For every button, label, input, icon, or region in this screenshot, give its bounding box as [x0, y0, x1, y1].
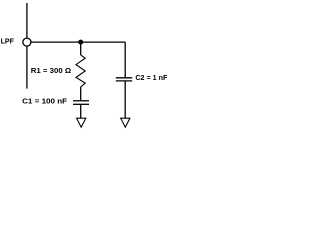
svg-text:R1 = 300 Ω: R1 = 300 Ω [31, 66, 71, 75]
svg-text:C2 = 1 nF: C2 = 1 nF [135, 73, 167, 82]
ground right [121, 118, 130, 127]
wire below LPF terminal [26, 46, 28, 88]
wire input top vertical [26, 3, 28, 38]
wire C1 to ground [80, 105, 82, 118]
wire horizontal main [31, 41, 125, 43]
ground left [77, 118, 86, 127]
wire R1 to C1 [80, 88, 82, 101]
node LPF terminal circle [23, 38, 31, 46]
svg-text:LPF: LPF [1, 36, 15, 45]
resistor R1 [76, 55, 85, 88]
svg-text:C1 = 100 nF: C1 = 100 nF [22, 97, 67, 106]
wire junction to R1 [80, 42, 82, 55]
capacitor C2 [116, 78, 132, 81]
junction dot [78, 40, 83, 45]
capacitor C1 [73, 101, 89, 105]
wire C2 to ground [124, 82, 126, 119]
wire top right corner down to C2 [124, 42, 126, 77]
